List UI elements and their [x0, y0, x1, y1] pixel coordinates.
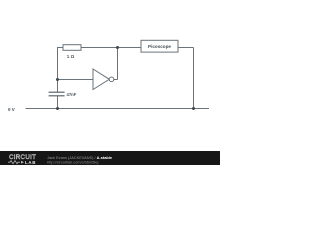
- svg-text:47nF: 47nF: [67, 92, 77, 97]
- svg-text:http://circuitlab.com/c/b6m5kq: http://circuitlab.com/c/b6m5kq: [47, 160, 98, 165]
- svg-text:0 V: 0 V: [8, 107, 15, 112]
- svg-text:LAB: LAB: [25, 160, 36, 165]
- svg-text:Picoscope: Picoscope: [148, 44, 171, 49]
- svg-text:1 Ω: 1 Ω: [67, 54, 75, 59]
